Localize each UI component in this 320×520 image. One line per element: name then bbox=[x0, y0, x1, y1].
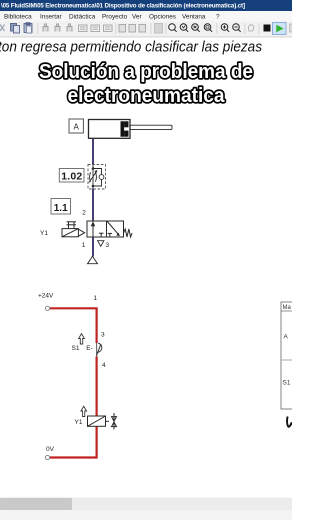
svg-text:A: A bbox=[74, 122, 80, 131]
svg-text:Proyecto: Proyecto bbox=[102, 14, 128, 21]
svg-text:?: ? bbox=[216, 14, 220, 21]
svg-text:S1: S1 bbox=[72, 345, 80, 352]
svg-text:4: 4 bbox=[102, 362, 106, 369]
svg-text:Insertar: Insertar bbox=[40, 14, 63, 21]
svg-text:Biblioteca: Biblioteca bbox=[4, 14, 32, 21]
svg-text:3: 3 bbox=[105, 242, 109, 249]
svg-text:Opciones: Opciones bbox=[149, 14, 176, 21]
svg-text:+24V: +24V bbox=[38, 293, 54, 300]
svg-text:electroneumatica: electroneumatica bbox=[68, 85, 226, 107]
svg-text:1.1: 1.1 bbox=[54, 203, 68, 214]
svg-text:0V: 0V bbox=[46, 446, 55, 453]
svg-text:Ver: Ver bbox=[132, 14, 142, 21]
svg-text:1.02: 1.02 bbox=[61, 171, 82, 183]
svg-text:ton regresa permitiendo clasif: ton regresa permitiendo clasificar las p… bbox=[0, 40, 262, 56]
svg-text:E-: E- bbox=[86, 345, 93, 352]
svg-text:1: 1 bbox=[82, 242, 86, 249]
svg-text:2: 2 bbox=[82, 210, 86, 217]
svg-text:Y1: Y1 bbox=[75, 419, 83, 426]
svg-text:Ventana: Ventana bbox=[182, 14, 206, 21]
svg-text:1: 1 bbox=[93, 295, 97, 302]
svg-text:S1: S1 bbox=[283, 380, 291, 387]
svg-text:Solución a problema de: Solución a problema de bbox=[39, 61, 253, 83]
svg-text:Y1: Y1 bbox=[40, 230, 48, 237]
svg-text:3: 3 bbox=[101, 331, 105, 338]
svg-text:Ma: Ma bbox=[283, 305, 292, 311]
svg-text:A: A bbox=[284, 334, 289, 341]
svg-text:\05 FluidSIM\05 Electroneumati: \05 FluidSIM\05 Electroneumatica\01 Disp… bbox=[1, 3, 245, 10]
svg-text:Didáctica: Didáctica bbox=[69, 14, 96, 21]
